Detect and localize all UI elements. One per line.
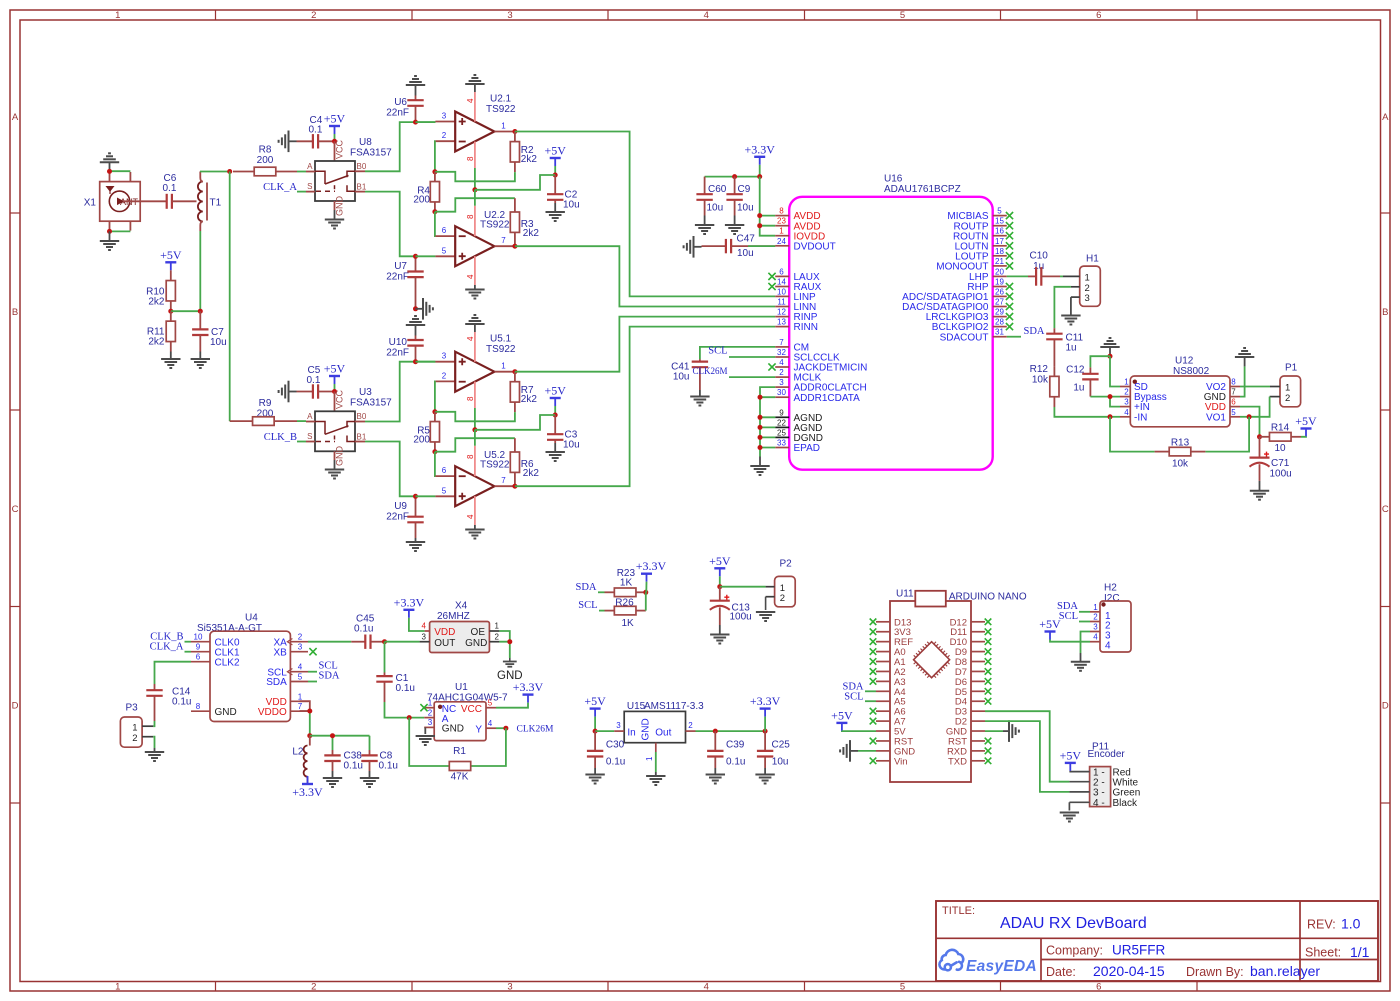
junction [382,639,387,644]
ground [334,210,336,220]
ground [474,324,476,332]
svg-text:2: 2 [442,371,447,380]
svg-text:8: 8 [1231,378,1236,387]
svg-text:P1: P1 [1285,363,1298,374]
svg-text:200: 200 [257,155,274,166]
svg-text:U11: U11 [896,589,914,600]
wire -IN to R13 [1110,417,1155,452]
wire [474,190,476,206]
wire VO2 to P1 [1240,386,1270,388]
wire Out rail [696,730,766,732]
svg-text:CLK_A: CLK_A [150,642,184,653]
junction [757,174,762,179]
svg-text:22nF: 22nF [386,272,409,283]
wire [416,121,436,123]
svg-text:0.1u: 0.1u [606,757,625,768]
svg-text:+5V: +5V [831,708,853,722]
svg-text:4: 4 [298,663,303,672]
wire SD net [1110,356,1120,386]
svg-text:25: 25 [777,428,786,437]
wire [153,737,154,748]
svg-text:10: 10 [777,287,786,296]
wire R1 loop [409,718,506,766]
ground [759,457,761,467]
ground [1080,653,1082,662]
svg-text:EasyEDA: EasyEDA [966,958,1037,975]
EasyEDA logo [939,950,963,971]
svg-text:H2: H2 [1104,583,1117,594]
wire XA to C45 [308,641,351,643]
wire B1 to U5.2 pin5 net [365,442,416,497]
svg-text:5: 5 [488,698,493,707]
wire [416,495,436,497]
op-amp U5.2 power pins [474,446,476,477]
wire [765,597,767,610]
wire [595,730,614,732]
svg-text:6: 6 [196,653,201,662]
svg-text:R8: R8 [259,145,272,156]
svg-text:0.1: 0.1 [163,183,177,194]
svg-text:24: 24 [777,237,786,246]
wire OE GND join [499,631,509,658]
svg-text:3: 3 [507,982,512,993]
junction [512,129,517,134]
svg-text:1: 1 [501,362,506,371]
svg-text:VCC: VCC [335,389,345,409]
svg-text:+5V: +5V [160,248,182,262]
ground [756,611,775,613]
wire Bypass net [1090,397,1120,407]
svg-text:U16: U16 [884,174,903,185]
wire [185,651,192,653]
svg-text:SCL: SCL [844,692,863,703]
svg-text:+5V: +5V [584,694,606,708]
junction [593,729,598,734]
svg-text:U5.1: U5.1 [490,334,512,345]
ground [1003,730,1009,732]
svg-text:22nF: 22nF [386,348,409,359]
svg-text:3: 3 [1124,398,1129,407]
svg-text:Y: Y [475,725,482,736]
ground [474,84,476,92]
svg-text:CLK_B: CLK_B [264,432,297,443]
svg-text:5: 5 [900,982,905,993]
wire [705,176,760,178]
junction [717,584,722,589]
wire U5.2 out to RINN [515,327,775,487]
svg-text:5: 5 [997,207,1002,216]
svg-text:In: In [627,727,635,738]
power flag +3.3V below [302,783,313,785]
svg-text:7: 7 [501,476,506,485]
svg-text:10u: 10u [737,248,754,259]
wire C45 to C1 [384,642,386,673]
svg-text:Green: Green [1113,788,1141,799]
wire [308,681,317,683]
ground [474,525,476,530]
junction [107,229,112,234]
svg-text:3: 3 [428,718,433,727]
svg-text:SDACOUT: SDACOUT [940,332,989,343]
svg-text:26: 26 [995,287,1004,296]
svg-text:2: 2 [311,982,316,993]
svg-text:4: 4 [1093,633,1098,642]
svg-text:100u: 100u [730,612,752,623]
svg-text:2k2: 2k2 [148,337,165,348]
ground [693,236,695,258]
svg-text:4: 4 [466,336,475,341]
wire [171,310,201,312]
svg-text:+3.3V: +3.3V [744,142,775,156]
wire R12 to -IN [1054,407,1110,417]
svg-text:2: 2 [1093,613,1098,622]
svg-text:3: 3 [1085,293,1090,304]
svg-text:2020-04-15: 2020-04-15 [1093,963,1165,979]
svg-text:1: 1 [132,722,137,733]
svg-text:+5V: +5V [324,362,346,376]
wire +5V rail block1 [475,175,555,190]
wire R4 to R3 top [435,198,515,212]
svg-text:P2: P2 [780,559,793,570]
wire Y to CLK26M [496,727,506,729]
svg-text:7: 7 [1231,388,1236,397]
svg-text:U4: U4 [245,613,258,624]
svg-text:R1: R1 [453,746,466,757]
wire -IN [1110,416,1120,418]
wire [416,361,436,363]
svg-text:1u: 1u [1073,383,1084,394]
svg-text:1: 1 [495,622,500,631]
svg-text:-IN: -IN [1134,412,1147,423]
svg-text:ADAU1761BCPZ: ADAU1761BCPZ [884,184,961,195]
svg-text:1u: 1u [1033,261,1044,272]
ground [1070,297,1072,315]
svg-text:16: 16 [995,227,1004,236]
svg-text:+5V: +5V [1295,414,1317,428]
svg-text:L2: L2 [292,747,304,758]
wire [729,356,775,358]
svg-text:R9: R9 [259,398,272,409]
ground [424,727,426,734]
svg-text:3: 3 [779,378,784,387]
svg-text:CLK26M: CLK26M [517,725,555,735]
svg-text:11: 11 [777,298,786,307]
svg-text:D: D [12,700,19,711]
junction [512,244,517,249]
svg-text:U9: U9 [394,501,407,512]
svg-text:Out: Out [655,727,671,738]
svg-text:GND: GND [442,724,464,735]
wire [110,230,131,232]
svg-text:8: 8 [466,214,475,219]
svg-text:VCC: VCC [335,139,345,159]
svg-text:5: 5 [1231,408,1236,417]
svg-text:33: 33 [777,439,786,448]
wire [474,408,476,430]
capacitor C39 [714,731,716,751]
svg-text:VDD: VDD [434,627,455,638]
svg-text:4: 4 [466,514,475,519]
capacitor C71 polarized [1259,437,1261,458]
svg-text:21: 21 [995,257,1004,266]
svg-text:P3: P3 [126,703,139,714]
wire VDD VDDO [300,701,310,711]
svg-text:22nF: 22nF [386,108,409,119]
wire CM to C41 [700,347,775,359]
svg-text:5: 5 [900,10,905,21]
svg-text:2k2: 2k2 [521,394,538,405]
svg-text:0.1u: 0.1u [726,757,745,768]
svg-text:FSA3157: FSA3157 [350,148,392,159]
op-amp U2.1 power pins [474,92,476,122]
wire [1079,611,1090,613]
svg-text:CLK26M: CLK26M [692,366,727,376]
svg-text:19: 19 [995,278,1004,287]
wire [297,171,306,173]
ground [288,381,290,403]
wire [598,591,605,593]
wire [474,168,476,190]
svg-text:U7: U7 [394,261,407,272]
wire [1060,275,1063,277]
svg-text:A: A [307,412,313,421]
svg-text:10u: 10u [563,440,580,451]
svg-text:U12: U12 [1175,356,1194,367]
svg-text:200: 200 [413,435,430,446]
wire [200,171,230,173]
wire U2.2 out to LINN [515,246,775,306]
svg-text:1: 1 [298,692,303,701]
svg-text:Date:: Date: [1046,965,1076,979]
wire [985,730,1003,732]
wire [1090,356,1110,367]
wire pin2 feedback [434,141,437,172]
svg-text:2: 2 [298,633,303,642]
svg-text:4: 4 [1124,408,1129,417]
wire H2 pin3 to ground [1081,632,1091,654]
wire GND pin7 [1240,366,1245,396]
svg-text:B1: B1 [357,182,367,191]
junction [413,254,418,259]
wire [865,690,876,692]
svg-text:SDA: SDA [266,677,287,688]
ground [334,460,336,470]
svg-text:U6: U6 [394,97,407,108]
svg-text:12: 12 [777,308,786,317]
svg-text:SDA: SDA [1024,326,1045,337]
svg-text:EPAD: EPAD [794,443,821,454]
svg-text:TS922: TS922 [480,220,510,231]
junction [432,449,437,454]
svg-text:MONOOUT: MONOOUT [936,262,988,273]
svg-text:23: 23 [777,217,786,226]
wire VO1 to R13 [1205,417,1249,452]
svg-text:Sheet:: Sheet: [1305,946,1341,960]
svg-text:10k: 10k [1172,459,1189,470]
svg-text:1: 1 [1124,378,1129,387]
svg-text:B0: B0 [357,162,367,171]
ground [1259,481,1261,491]
svg-text:C71: C71 [1271,458,1290,469]
svg-text:2: 2 [779,368,784,377]
junction [507,639,512,644]
svg-text:10u: 10u [673,372,690,383]
junction [643,590,648,595]
svg-text:+3.3V: +3.3V [513,680,544,694]
svg-text:U10: U10 [389,337,408,348]
svg-text:1: 1 [428,698,433,707]
svg-text:4: 4 [779,358,784,367]
ground [109,231,111,241]
antenna connector X1 [100,182,141,222]
svg-text:FSA3157: FSA3157 [350,398,392,409]
wire R5 to R6 top [435,438,515,452]
wire +3.3V to AVDD pins [760,177,776,236]
svg-text:3: 3 [616,721,621,730]
junction [407,715,412,720]
svg-text:2: 2 [1124,388,1129,397]
junction [107,169,112,174]
svg-text:0.1u: 0.1u [354,624,373,635]
junction [757,213,762,218]
svg-text:+3.3V: +3.3V [292,785,323,799]
svg-text:100u: 100u [1270,469,1292,480]
svg-text:GND: GND [335,196,345,217]
junction [413,120,418,125]
junction [413,306,418,311]
svg-text:DVDOUT: DVDOUT [794,241,836,252]
junction [432,409,437,414]
junction [512,369,517,374]
svg-text:6: 6 [779,267,784,276]
wire [858,750,876,752]
junction [1108,394,1113,399]
svg-text:ADAU RX DevBoard: ADAU RX DevBoard [1000,915,1147,932]
svg-text:Vin: Vin [894,756,908,767]
svg-text:2: 2 [495,632,500,641]
wire B0 to U2.1 pin3 net [365,122,435,171]
svg-text:7: 7 [298,702,303,711]
svg-text:C39: C39 [726,740,745,751]
wire [297,441,306,443]
ground [655,772,657,776]
wire [385,641,420,643]
power flag +3.3V [636,559,667,582]
svg-text:X1: X1 [84,197,97,208]
svg-text:GND: GND [641,718,652,740]
capacitor C7 [199,311,201,329]
svg-text:0.1u: 0.1u [344,761,363,772]
svg-text:6: 6 [442,226,447,235]
svg-text:10: 10 [1274,443,1286,454]
wire [185,641,192,643]
svg-text:3: 3 [507,10,512,21]
svg-text:6: 6 [1231,398,1236,407]
wire P1 pin2 to VO1 [1249,397,1270,417]
svg-text:R12: R12 [1030,364,1049,375]
svg-text:CLK2: CLK2 [215,657,240,668]
wire [153,721,154,726]
svg-text:0.1u: 0.1u [379,761,398,772]
svg-text:+3.3V: +3.3V [750,694,781,708]
svg-text:7: 7 [779,338,784,347]
svg-text:SCL: SCL [578,600,597,611]
svg-text:SCL: SCL [708,346,727,357]
svg-text:5: 5 [442,246,447,255]
ground [764,768,766,775]
svg-text:4: 4 [466,274,475,279]
wire +5V rail block2 [475,415,555,430]
junction [432,169,437,174]
svg-text:Company:: Company: [1046,944,1103,958]
svg-text:C47: C47 [737,234,756,245]
svg-text:+3.3V: +3.3V [394,595,425,609]
ground [288,131,290,153]
wire [1007,275,1028,277]
svg-text:0.1u: 0.1u [396,683,415,694]
wire pin2 feedback [434,381,437,411]
svg-text:10u: 10u [737,203,754,214]
wire [416,255,436,257]
svg-text:C10: C10 [1030,251,1049,262]
junction [503,726,508,731]
transformer T1 [198,182,203,222]
svg-text:C30: C30 [606,740,625,751]
svg-text:U1: U1 [455,682,468,693]
wire [645,592,647,610]
svg-text:TS922: TS922 [486,104,516,115]
no-connect XB [309,648,316,655]
junction [553,173,558,178]
svg-text:8: 8 [196,702,201,711]
wire [297,191,306,193]
junction [512,484,517,489]
svg-text:29: 29 [995,308,1004,317]
junction [553,413,558,418]
svg-text:3: 3 [442,112,447,121]
svg-text:27: 27 [995,298,1004,307]
svg-text:1: 1 [501,122,506,131]
junction [413,494,418,499]
svg-text:2: 2 [1285,393,1290,404]
svg-text:14: 14 [777,278,786,287]
ground [416,308,424,310]
svg-text:5: 5 [442,486,447,495]
svg-text:4: 4 [422,622,427,631]
svg-text:8: 8 [466,396,475,401]
svg-text:+3.3V: +3.3V [636,559,667,573]
svg-text:4: 4 [704,982,709,993]
svg-text:13: 13 [777,318,786,327]
ground [1100,346,1119,348]
wire R2 to feedback [435,172,515,182]
svg-text:2k2: 2k2 [521,154,538,165]
capacitor C3 [554,415,556,434]
wire C1 to U1 A [385,702,425,718]
svg-text:B: B [12,307,18,318]
svg-text:+5V: +5V [1060,748,1082,762]
svg-text:1: 1 [1085,273,1090,284]
op-amp U5.1 power pins [474,332,476,362]
svg-text:17: 17 [995,237,1004,246]
wire P11 pin4 to ground [1068,802,1070,810]
svg-text:H1: H1 [1086,254,1099,265]
svg-text:2: 2 [428,708,433,717]
svg-text:GND: GND [335,446,345,467]
svg-text:T1: T1 [210,198,222,209]
op-amp U2.2 power pins [474,206,476,237]
svg-text:ban.relayer: ban.relayer [1250,963,1320,979]
